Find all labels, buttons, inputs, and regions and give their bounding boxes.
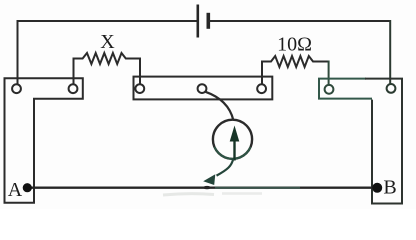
terminal right strip outer [387,84,396,93]
battery B1 long plate [197,5,200,38]
battery B1 short plate [207,13,211,29]
svg-text:B: B [383,176,396,198]
wire X left lead down to left strip terminal [73,58,75,85]
wire left vertical drop to left strip terminal [17,20,19,85]
svg-text:A: A [8,179,23,201]
wire curved lead from middle terminal to galvanometer top [206,92,234,120]
wire top-right from battery negative to right corner [208,20,390,22]
copper strip middle (gap strip) [134,77,273,100]
galvanometer needle arrowhead [230,126,240,142]
galvanometer G lower arc (green tint) [215,147,251,159]
node A junction dot [23,183,32,192]
resistor X body (zigzag) with horizontal leads [74,53,141,64]
terminal middle strip right [257,84,266,93]
terminal middle strip left [135,84,144,93]
copper strip right (L-shaped, ends at node B) green-tinted left edges [319,79,372,99]
galvanometer needle shaft [233,140,235,161]
svg-text:10Ω: 10Ω [277,34,312,56]
jockey arrowhead touching bridge wire [203,174,215,185]
node B junction dot [372,183,382,193]
wire right vertical drop to right strip outer terminal [389,20,391,85]
resistor R 10ohm body (zigzag) with horizontal leads [262,56,329,67]
faint scan smudge below wire right of jockey [222,192,262,195]
svg-text:X: X [100,31,115,53]
bridge wire middle segment (green tint) [215,187,300,189]
bridge wire from A to B [28,187,378,189]
terminal left strip inner [69,84,78,93]
wire 10ohm left lead down to middle strip right terminal [261,61,263,85]
wire 10ohm right lead down to right strip inner terminal [328,61,330,86]
terminal left strip outer [12,84,21,93]
copper strip right (L-shaped, ends at node B) dark edges [365,79,402,204]
terminal middle strip center (galvanometer tap) [198,84,207,93]
wire X right lead down to middle strip left terminal [139,58,141,85]
faint scan smudge below wire left of jockey [163,194,214,195]
wire top-left from node above A-strip to battery positive [18,20,198,22]
terminal right strip inner [325,85,334,94]
galvanometer G case [213,120,252,159]
jockey contact mark on wire [203,186,211,189]
copper strip left (L-shaped, ends at node A) [5,78,83,203]
wire curved jockey lead from galvanometer bottom [217,159,234,176]
